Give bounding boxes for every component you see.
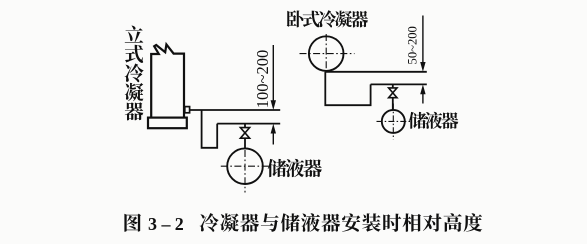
- pipe: receiver inlet horizontal run (left): [217, 123, 280, 125]
- pipe: receiver inlet horizontal run (right): [371, 83, 427, 85]
- valve (left receiver inlet valve): [240, 128, 249, 139]
- condenser V1 base pedestal: [148, 118, 187, 129]
- centerline horizontal (condenser V2): [300, 53, 355, 55]
- receiver T1 (储液器, left): [227, 148, 263, 184]
- label vertical-condenser 立式冷凝器: [125, 26, 144, 121]
- svg-text:100~200: 100~200: [253, 50, 272, 108]
- centerline vertical (condenser V2): [325, 34, 327, 74]
- caption 冷凝器与储液器安装时相对高度: [200, 213, 483, 232]
- centerline vertical (left receiver): [244, 150, 246, 193]
- pipe: down-leg and riser (right): [325, 72, 370, 105]
- label horizontal-condenser 卧式冷凝器: [287, 10, 368, 27]
- wire: valve stem upper (right): [392, 84, 394, 88]
- centerline vertical (right receiver): [392, 104, 394, 140]
- condenser V1 (vertical condenser body): [151, 44, 184, 117]
- dimension line 100~200 (left): [271, 45, 276, 145]
- valve (right receiver inlet valve): [389, 88, 397, 98]
- pipe: condenser V2 bottom horizontal run: [325, 71, 427, 73]
- svg-text:2: 2: [175, 214, 184, 234]
- receiver T2 (储液器, right): [382, 110, 405, 133]
- svg-text:–: –: [161, 214, 172, 234]
- caption 图: [124, 214, 141, 232]
- svg-text:3: 3: [148, 214, 157, 234]
- pipe: liquid-seal U-trap (left): [202, 110, 218, 148]
- dimension line 50~200 (right): [420, 16, 425, 104]
- wire: valve stem lower (left): [244, 138, 246, 149]
- wire: valve stem lower (right): [392, 98, 394, 111]
- condenser V2 (horizontal condenser, end view): [309, 36, 344, 71]
- condenser V1 outlet nozzle: [185, 107, 190, 113]
- label 储液器 (right): [409, 112, 458, 129]
- centerline horizontal (right receiver): [377, 120, 411, 122]
- svg-text:50~200: 50~200: [406, 26, 420, 64]
- wire: valve stem upper (left): [244, 124, 246, 128]
- pipe: condenser outlet horizontal run (left): [190, 109, 281, 111]
- label 储液器 (left): [268, 159, 322, 177]
- centerline horizontal (left receiver): [221, 165, 271, 167]
